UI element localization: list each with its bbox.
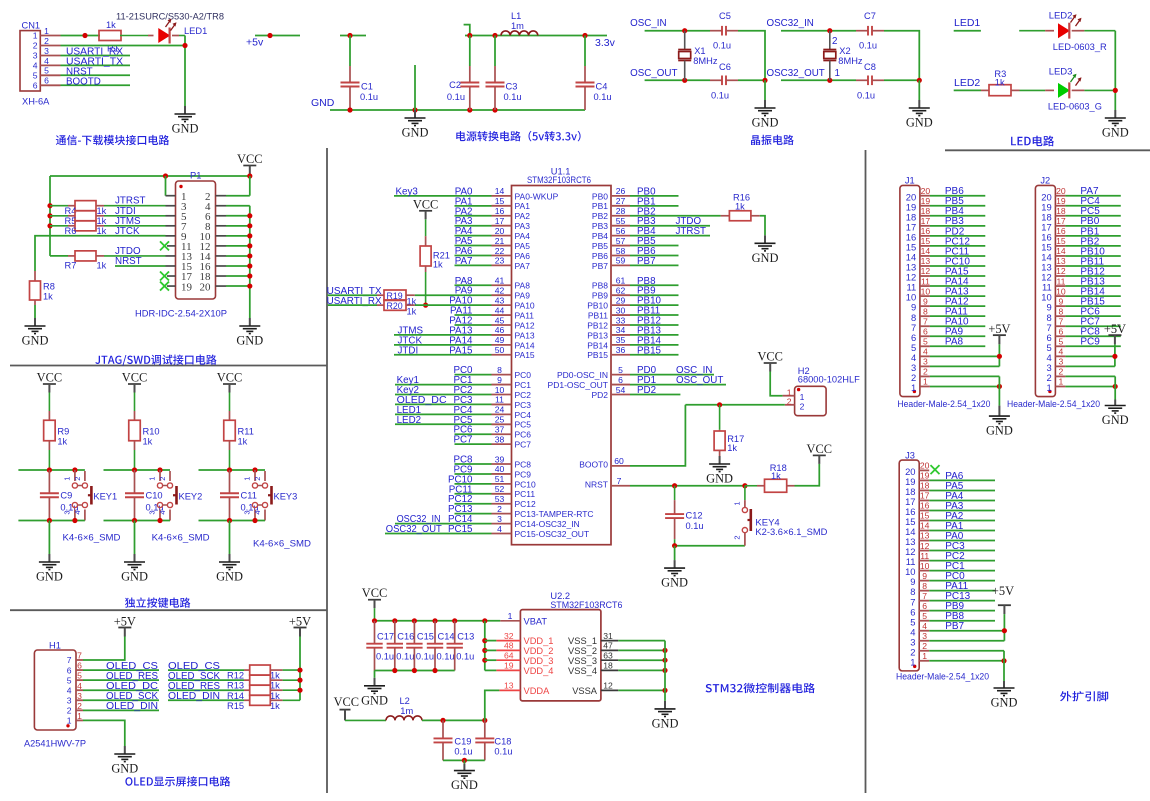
svg-text:15: 15	[495, 196, 505, 206]
svg-text:2: 2	[33, 41, 38, 51]
wire net PB6 U1 right	[630, 254, 679, 256]
ground R17	[706, 456, 733, 486]
pin stub U1 PB9 pin 62	[611, 294, 630, 296]
wire L2 out	[422, 719, 485, 721]
svg-text:PA1: PA1	[515, 201, 531, 211]
svg-text:5: 5	[923, 337, 928, 347]
wire gnd bus J2	[1114, 376, 1116, 399]
junction at 829.8,80.3	[827, 78, 832, 83]
svg-text:PA3: PA3	[515, 221, 531, 231]
wire net PA7 U1	[455, 264, 492, 266]
svg-text:VCC: VCC	[334, 695, 359, 709]
svg-text:BOOT0: BOOT0	[579, 459, 608, 469]
wire J2 pin3 +5V	[1065, 365, 1115, 367]
svg-text:BOOTD: BOOTD	[66, 76, 101, 87]
svg-text:27: 27	[616, 196, 626, 206]
svg-text:X1: X1	[694, 46, 705, 56]
wire net PA12 J1	[930, 305, 985, 307]
svg-text:1k: 1k	[143, 437, 153, 447]
wire KEY1 to gnd	[48, 521, 50, 555]
svg-text:C15: C15	[417, 631, 434, 641]
resistor R16	[721, 192, 760, 220]
wire cap top to riser	[884, 31, 919, 81]
junction +5V bus OLED	[297, 678, 302, 683]
pin stub U1 PA13 pin 46	[492, 334, 512, 336]
power VCC	[217, 371, 242, 393]
wire net PA15 J1	[930, 275, 985, 277]
crystal X2 body	[823, 31, 836, 81]
svg-text:C9: C9	[60, 491, 72, 501]
svg-text:PB6: PB6	[592, 251, 608, 261]
pin stub P1 pin 9	[166, 235, 176, 237]
junction at 74.9,520.5	[72, 518, 77, 523]
svg-text:C8: C8	[864, 62, 876, 72]
wire net OSC_IN	[645, 30, 685, 32]
svg-text:4: 4	[158, 510, 167, 514]
svg-text:0.1u: 0.1u	[396, 652, 414, 662]
wire C1 top	[340, 35, 366, 37]
svg-text:PA10: PA10	[515, 301, 535, 311]
svg-text:12: 12	[921, 266, 931, 276]
pin stub J3 pin 6	[919, 610, 929, 612]
svg-text:GND: GND	[991, 696, 1018, 710]
wire to cap top	[685, 30, 710, 32]
svg-text:20: 20	[1056, 186, 1066, 196]
svg-text:PD2: PD2	[591, 390, 608, 400]
svg-text:11: 11	[920, 551, 929, 561]
svg-text:17: 17	[495, 216, 505, 226]
junction P1 gnd bus	[247, 263, 252, 268]
svg-text:PD2: PD2	[637, 385, 656, 396]
pin stub U1 PD1 pin 6	[611, 384, 630, 386]
svg-text:PB7: PB7	[592, 261, 608, 271]
svg-text:PA15: PA15	[515, 350, 535, 360]
wire net PA2 U1	[455, 215, 492, 217]
wire VSS_1	[618, 640, 665, 642]
wire net PA7 J2	[1065, 195, 1120, 197]
power +5V OLED right	[289, 614, 311, 636]
wire P1 pin 20 to bus	[226, 285, 250, 287]
svg-text:20: 20	[495, 226, 505, 236]
svg-text:2: 2	[1059, 367, 1064, 377]
resistor R14	[227, 685, 300, 701]
junction at 684.7,30.7	[682, 28, 687, 33]
wire net PB3 U1 right	[630, 225, 710, 227]
resistor R18	[745, 463, 795, 492]
power +5V J3	[992, 584, 1014, 614]
wire net PA12 U1	[455, 324, 492, 326]
svg-text:54: 54	[616, 385, 626, 395]
svg-text:1k: 1k	[727, 443, 737, 453]
capacitor C14	[427, 621, 443, 671]
wire LED1 cathode down	[184, 36, 186, 107]
wire net Key3	[394, 195, 455, 197]
pin stub U1 PC3 pin 11	[492, 403, 512, 405]
pin stub J3 pin 4	[919, 630, 929, 632]
svg-text:JTDI: JTDI	[398, 345, 419, 356]
pin stub J1 pin 13	[920, 265, 930, 267]
capacitor C16	[387, 621, 403, 671]
ground R16	[752, 235, 779, 264]
switch KEY2	[157, 470, 176, 521]
svg-text:6: 6	[67, 665, 72, 675]
wire net PA14 J1	[930, 285, 985, 287]
svg-text:2: 2	[158, 477, 167, 481]
svg-text:1k: 1k	[106, 20, 116, 30]
svg-text:2: 2	[732, 535, 741, 539]
svg-text:PB4: PB4	[592, 231, 608, 241]
junction pull bus	[47, 213, 52, 218]
wire net PB12 J2	[1065, 275, 1120, 277]
svg-text:R14: R14	[227, 691, 244, 701]
svg-text:VDD_3: VDD_3	[524, 656, 554, 666]
wire net OLED_DIN pullup	[168, 699, 244, 701]
pin stub U1 PB10 pin 29	[611, 304, 630, 306]
svg-text:1m: 1m	[511, 21, 524, 31]
wire KEY3 to gnd	[229, 521, 231, 555]
wire USARTI_RX	[328, 304, 377, 306]
svg-text:VCC: VCC	[807, 442, 832, 456]
pin stub J1 pin 20	[920, 195, 930, 197]
svg-text:C12: C12	[686, 511, 703, 521]
pin stub U1 PA11 pin 44	[492, 314, 512, 316]
wire net PB5 U1 right	[630, 245, 679, 247]
svg-text:58: 58	[616, 246, 626, 256]
svg-text:GND: GND	[36, 570, 63, 584]
svg-text:53: 53	[495, 494, 505, 504]
svg-text:L1: L1	[511, 11, 521, 21]
LED arrows	[1071, 14, 1082, 26]
svg-text:LED2: LED2	[954, 77, 980, 89]
pin stub P1 pin 6	[216, 215, 227, 217]
pin stub U1 PB13 pin 34	[611, 334, 630, 336]
svg-text:50: 50	[495, 345, 505, 355]
pin stub J3 pin 13	[919, 540, 929, 542]
power VCC	[122, 371, 147, 393]
svg-text:9: 9	[922, 571, 927, 581]
svg-text:K4-6×6_SMD: K4-6×6_SMD	[152, 533, 210, 544]
junction CN1 pin1 wire	[82, 33, 87, 38]
pin stub U2 VDD_4	[496, 669, 520, 671]
wire net PD1 U1 right	[630, 384, 726, 386]
wire NRST	[630, 485, 745, 487]
svg-text:HDR-IDC-2.54-2X10P: HDR-IDC-2.54-2X10P	[135, 309, 227, 320]
wire net OLED_RES H1	[83, 679, 159, 681]
pin stub U2 VSS_2	[601, 649, 618, 651]
pin stub H2 pin 1	[783, 395, 795, 397]
junction R21/USARTI_RX	[423, 303, 428, 308]
wire top node KEY1	[18, 469, 85, 471]
svg-text:36: 36	[616, 345, 626, 355]
IC U2.2 pin names	[524, 616, 598, 696]
wire VSS_3	[618, 659, 665, 661]
pin stub J1 pin 4	[920, 355, 930, 357]
ground cap bank	[361, 678, 388, 708]
wire net OSC32_OUT U1	[385, 533, 455, 535]
wire net PC3 J3	[929, 550, 995, 552]
svg-text:18: 18	[921, 206, 931, 216]
capacitor C19	[434, 720, 453, 760]
svg-text:1k: 1k	[97, 216, 107, 226]
pin stub J2 pin 6	[1055, 335, 1065, 337]
svg-text:3: 3	[148, 510, 157, 514]
pin stub P1 pin 18	[216, 275, 227, 277]
connector J3	[899, 451, 919, 671]
svg-text:61: 61	[616, 276, 626, 286]
wire riser to gnd	[764, 80, 766, 100]
svg-text:1: 1	[33, 31, 38, 41]
svg-text:PA6: PA6	[515, 251, 531, 261]
svg-text:43: 43	[495, 295, 505, 305]
wire net PC2 U1	[455, 394, 492, 396]
wire P1 pin 18 to bus	[226, 275, 250, 277]
wire VSS bus	[664, 641, 666, 701]
capacitor top X1 circuit	[710, 26, 738, 36]
junction at 684.7,80.3	[682, 78, 687, 83]
wire BOOT0 to H2 pin2	[685, 404, 784, 406]
svg-text:2: 2	[67, 706, 72, 716]
svg-text:1k: 1k	[270, 681, 280, 691]
pin stub U1 PB1 pin 27	[611, 205, 630, 207]
junction C4 top	[582, 33, 587, 38]
svg-text:R13: R13	[227, 681, 244, 691]
switch KEY4 pin numbers	[732, 501, 741, 539]
svg-text:22: 22	[495, 246, 505, 256]
svg-text:25: 25	[495, 415, 505, 425]
section divider horizontal LED	[945, 149, 1150, 151]
svg-text:51: 51	[495, 474, 505, 484]
title 外扩引脚	[1060, 691, 1108, 701]
inductor L1	[501, 11, 538, 36]
wire net OSC32_OUT	[781, 79, 830, 81]
svg-text:17: 17	[1056, 216, 1066, 226]
svg-text:STM32F103RCT6: STM32F103RCT6	[527, 175, 591, 185]
capacitor C4	[576, 66, 595, 110]
wire net OLED_RES pullup	[168, 689, 244, 691]
svg-text:0.1u: 0.1u	[711, 91, 729, 101]
svg-text:5: 5	[67, 675, 72, 685]
wire net PA3 J3	[929, 509, 995, 511]
pin stub U1 PA5 pin 21	[492, 245, 512, 247]
junction gnd J2	[1113, 384, 1118, 389]
svg-text:7: 7	[1059, 316, 1064, 326]
svg-text:19: 19	[1056, 196, 1066, 206]
svg-text:Header-Male-2.54_1x20: Header-Male-2.54_1x20	[1007, 399, 1100, 410]
svg-text:8: 8	[1059, 306, 1064, 316]
pin stub U2 VBAT pin 1	[500, 620, 520, 622]
svg-text:5: 5	[618, 365, 623, 375]
svg-text:C18: C18	[494, 737, 511, 747]
pin stub U1 PA12 pin 45	[492, 324, 512, 326]
pin stub P1 pin 15	[166, 265, 176, 267]
junction bottom rail	[412, 668, 417, 673]
junction rail C16	[392, 618, 397, 623]
no-connect X P1 pin 17	[160, 272, 169, 281]
svg-text:13: 13	[504, 681, 514, 691]
wire net PC0 J3	[929, 580, 995, 582]
svg-text:GND: GND	[111, 762, 138, 776]
svg-text:0.1u: 0.1u	[437, 652, 455, 662]
pin stub U1 PC1 pin 9	[492, 384, 512, 386]
pin stub J2 pin 18	[1055, 215, 1065, 217]
svg-text:LED-0603_R: LED-0603_R	[1053, 42, 1107, 53]
svg-text:VCC: VCC	[37, 371, 62, 385]
svg-text:14: 14	[1056, 246, 1066, 256]
wire net PC0 U1	[455, 374, 492, 376]
svg-text:R7: R7	[65, 260, 77, 270]
resistor R8	[30, 271, 55, 305]
wire net PC8 J2	[1065, 335, 1120, 337]
ground J3	[991, 681, 1018, 710]
connector CN1	[20, 21, 50, 107]
wire VDD bus	[484, 621, 486, 671]
wire gnd bus J3	[1003, 651, 1005, 681]
svg-text:1k: 1k	[735, 201, 745, 211]
svg-text:PC5: PC5	[515, 420, 532, 430]
svg-text:0.1u: 0.1u	[494, 747, 512, 757]
svg-text:J1: J1	[905, 175, 915, 185]
svg-text:VCC: VCC	[122, 371, 147, 385]
wire net PC6 U1	[455, 433, 492, 435]
svg-text:3: 3	[243, 510, 252, 514]
pin stub P1 pin 11	[167, 245, 176, 247]
wire net OLED_SCK H1	[83, 699, 159, 701]
svg-text:9: 9	[923, 296, 928, 306]
svg-text:49: 49	[495, 335, 505, 345]
svg-text:VCC: VCC	[413, 197, 438, 211]
svg-text:20: 20	[920, 461, 930, 471]
wire net PB4 J1	[930, 215, 985, 217]
pin stub U2 VDDA pin 13	[499, 689, 520, 691]
pin stub P1 pin 14	[216, 255, 227, 257]
wire net PA2 J3	[929, 520, 995, 522]
connector J2	[1035, 175, 1055, 396]
svg-text:VSS_1: VSS_1	[568, 636, 597, 646]
pin stub P1 pin 7	[166, 225, 176, 227]
svg-text:PB2: PB2	[592, 211, 608, 221]
svg-text:3: 3	[67, 695, 72, 705]
pin stub U1 PB3 pin 55	[611, 225, 630, 227]
svg-text:1k: 1k	[771, 471, 781, 481]
pin stub J2 pin 4	[1055, 355, 1065, 357]
power +5V OLED H1	[114, 614, 136, 636]
capacitor bottom X1 circuit	[710, 76, 738, 86]
svg-text:21: 21	[495, 236, 505, 246]
pin stub U1 PC10 pin 51	[492, 483, 512, 485]
svg-text:GND: GND	[451, 778, 478, 792]
wire C3 column	[494, 36, 496, 67]
svg-text:PC15-OSC32_OUT: PC15-OSC32_OUT	[515, 529, 590, 539]
connector J2 pin numbers inner	[1041, 191, 1051, 393]
svg-text:PC4: PC4	[515, 410, 532, 420]
pin stub U1 PB5 pin 57	[611, 245, 630, 247]
wire VCC to R col KEY1	[48, 393, 50, 412]
section divider horizontal buttons/OLED	[10, 609, 327, 611]
wire P1 pin2 riser	[249, 176, 251, 196]
svg-text:3: 3	[1059, 357, 1064, 367]
wire net PB9 U1 right	[630, 294, 679, 296]
svg-text:GND: GND	[661, 576, 688, 590]
junction +5v	[267, 33, 272, 38]
pin stub U2 VSS_1	[601, 640, 618, 642]
wire net PC7 J2	[1065, 325, 1120, 327]
wire net PA8 J1	[930, 345, 985, 347]
ground H1	[111, 746, 138, 776]
svg-text:3: 3	[33, 51, 38, 61]
wire R1 to LED1	[120, 35, 148, 37]
svg-text:12: 12	[1056, 266, 1066, 276]
title OLED显示屏接口电路	[125, 776, 230, 786]
pin stub P1 pin 20	[216, 285, 227, 287]
wire to VDDA	[485, 690, 500, 720]
wire net JTMS U1	[394, 334, 455, 336]
connector J3 pin numbers inner	[905, 466, 915, 667]
no-connect X P1 pin 11	[160, 241, 169, 250]
wire gnd riser	[414, 65, 416, 110]
pin stub CN1	[40, 74, 60, 76]
pin stub J1 pin 19	[920, 205, 930, 207]
wire net PC10 J1	[930, 265, 985, 267]
pin stub U1 PC5 pin 25	[492, 423, 512, 425]
wire J2 pin4 +5V	[1065, 355, 1115, 357]
svg-text:C17: C17	[377, 631, 394, 641]
pin stub J3 pin 5	[919, 620, 929, 622]
svg-text:42: 42	[495, 286, 505, 296]
svg-text:GND: GND	[361, 693, 388, 707]
switch KEY2 pin numbers	[148, 477, 168, 515]
pin stub U1 PA10 pin 43	[492, 304, 512, 306]
wire net PB5 J1	[930, 205, 985, 207]
svg-text:13: 13	[921, 256, 931, 266]
wire net PD0 U1 right	[630, 374, 714, 376]
pin stub P1 pin 1	[166, 195, 176, 197]
wire net PC9 J2	[1065, 345, 1120, 347]
pin stub P1 pin 13	[166, 255, 176, 257]
pin stub J2 pin 1	[1055, 385, 1065, 387]
svg-text:1k: 1k	[238, 437, 248, 447]
junction VDD bus	[482, 638, 487, 643]
pin stub J1 pin 3	[920, 365, 930, 367]
svg-text:0.1u: 0.1u	[416, 652, 434, 662]
svg-text:VSSA: VSSA	[572, 686, 598, 696]
ground J1	[986, 406, 1013, 438]
wire +5v stub	[255, 35, 300, 37]
junction P1 gnd bus	[247, 273, 252, 278]
resistor R5 body	[75, 211, 96, 221]
wire net PA11 J1	[930, 315, 985, 317]
svg-text:32: 32	[504, 631, 514, 641]
svg-text:+5V: +5V	[114, 614, 136, 628]
capacitor C12 body	[665, 500, 684, 539]
svg-text:PC8: PC8	[515, 459, 532, 469]
ground U2 VSS	[652, 701, 679, 731]
svg-text:17: 17	[920, 491, 930, 501]
svg-text:2: 2	[832, 36, 837, 47]
svg-text:3: 3	[497, 514, 502, 524]
svg-text:+5V: +5V	[992, 584, 1014, 598]
pin stub J2 pin 5	[1055, 345, 1065, 347]
wire H1 pin1 to gnd	[83, 720, 125, 746]
wire LED2 cathode	[1072, 30, 1085, 32]
LED D LED3 (green)	[1059, 82, 1070, 98]
svg-text:18: 18	[1056, 206, 1066, 216]
junction rail C14	[432, 618, 437, 623]
wire net BOOTD	[61, 84, 131, 86]
svg-text:40: 40	[495, 464, 505, 474]
pin stub CN1	[40, 55, 60, 57]
wire R10 to node	[134, 441, 136, 450]
svg-text:GND: GND	[172, 122, 199, 136]
